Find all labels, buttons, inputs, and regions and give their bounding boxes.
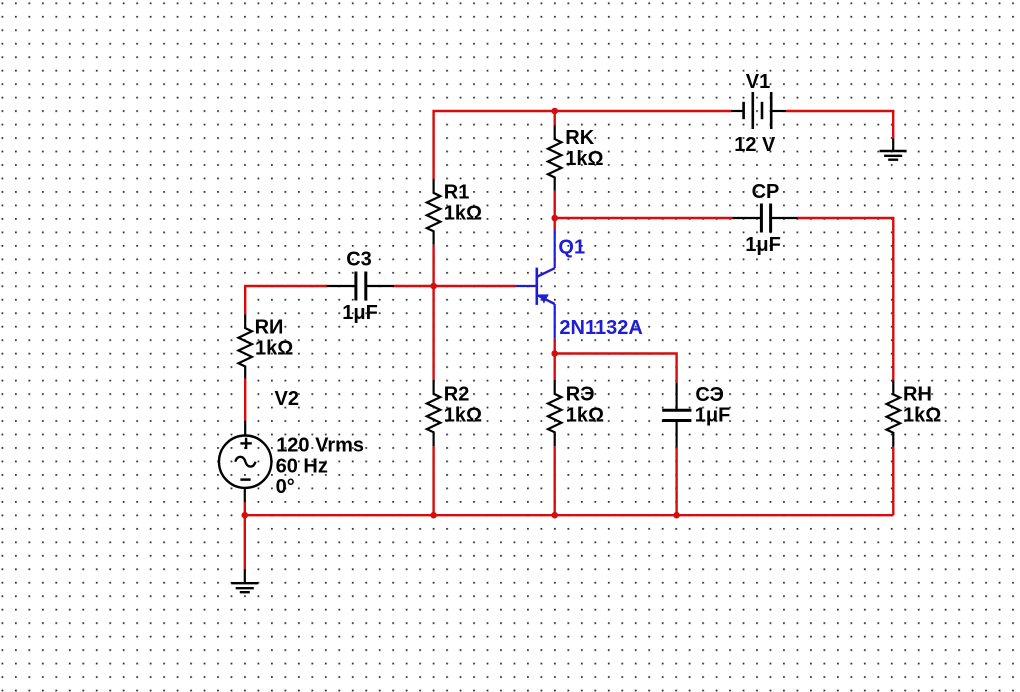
svg-text:1kΩ: 1kΩ — [255, 337, 293, 359]
wire R2 top lead — [432, 286, 434, 380]
wire CP node to collector — [554, 218, 556, 230]
svg-text:1kΩ: 1kΩ — [444, 203, 482, 225]
wire R2 bottom lead — [432, 446, 434, 515]
resistor RE — [548, 380, 604, 446]
svg-text:RЭ: RЭ — [566, 384, 595, 406]
wire V2 bottom to ground — [244, 502, 246, 569]
wire RI bottom to V2 — [244, 379, 246, 421]
svg-text:RK: RK — [565, 127, 594, 149]
wire C3 right to base — [394, 285, 515, 287]
wire CE cap bottom lead — [675, 447, 677, 515]
node R2 rail — [430, 512, 437, 519]
svg-text:60 Hz: 60 Hz — [276, 455, 328, 477]
resistor RI — [238, 314, 293, 378]
wire bottom rail — [245, 514, 894, 516]
svg-text:1μF: 1μF — [745, 234, 781, 256]
wire RE top lead — [554, 354, 556, 381]
svg-text:Q1: Q1 — [558, 237, 585, 259]
svg-text:R2: R2 — [444, 384, 470, 406]
resistor R1 — [427, 179, 482, 245]
wire top rail right (RK node to V1) — [555, 110, 731, 112]
svg-text:1kΩ: 1kΩ — [565, 148, 603, 170]
capacitor C3 — [327, 249, 394, 324]
wire R1 bottom lead — [432, 245, 434, 286]
resistor RK — [548, 125, 604, 191]
wire V1 to ground — [786, 111, 894, 139]
svg-text:0°: 0° — [276, 476, 295, 498]
svg-text:RH: RH — [903, 384, 932, 406]
node top rail RK — [551, 108, 558, 115]
wire RK bottom lead to CP node — [554, 191, 556, 218]
svg-text:V1: V1 — [746, 71, 770, 93]
svg-text:1μF: 1μF — [342, 302, 378, 324]
svg-text:RИ: RИ — [255, 317, 284, 339]
node V2 rail — [242, 512, 249, 519]
wire emitter red lead — [554, 339, 556, 354]
AC source V2 — [219, 388, 364, 502]
resistor RH — [887, 381, 942, 447]
wire RH bottom to rail — [892, 447, 894, 515]
svg-text:СЭ: СЭ — [695, 384, 723, 406]
node emitter RE CE — [551, 350, 558, 357]
wire CP right down to RH — [798, 218, 894, 381]
capacitor CE — [662, 382, 730, 447]
resistor R2 — [427, 380, 482, 446]
svg-text:CP: CP — [752, 181, 780, 203]
node CE rail — [673, 512, 680, 519]
wire top rail left (R1 top to RK node) — [434, 111, 555, 179]
node RE rail — [551, 512, 558, 519]
node RK CP collector — [551, 215, 558, 222]
svg-text:1kΩ: 1kΩ — [566, 404, 604, 426]
wire RK top lead — [554, 111, 556, 125]
ground bottom left — [231, 569, 258, 592]
svg-text:1kΩ: 1kΩ — [444, 404, 482, 426]
svg-text:V2: V2 — [275, 388, 299, 410]
svg-text:C3: C3 — [346, 249, 372, 271]
svg-text:R1: R1 — [444, 182, 470, 204]
capacitor CP — [733, 181, 798, 256]
node input R1 R2 — [430, 283, 437, 290]
svg-text:120 Vrms: 120 Vrms — [276, 435, 364, 457]
transistor Q1 — [515, 230, 642, 339]
svg-text:12 V: 12 V — [734, 134, 776, 156]
svg-text:2N1132A: 2N1132A — [559, 317, 642, 339]
ground top right — [880, 139, 907, 160]
svg-text:1kΩ: 1kΩ — [903, 404, 941, 426]
wire input corner RI top — [245, 286, 327, 314]
svg-text:1μF: 1μF — [695, 404, 731, 426]
wire RE bottom lead — [554, 446, 556, 515]
battery V1 — [731, 71, 786, 156]
wire CP left — [555, 217, 733, 219]
wire emitter node to CE cap — [555, 354, 677, 383]
